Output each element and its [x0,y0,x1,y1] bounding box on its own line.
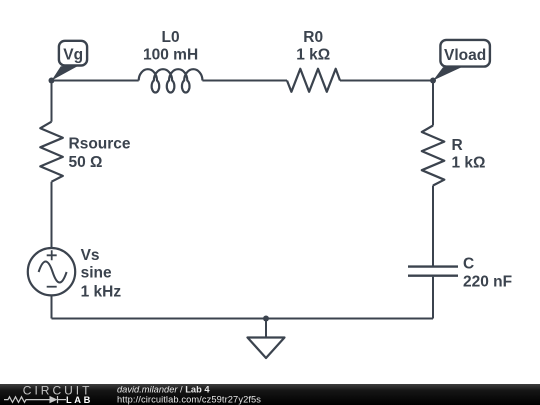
svg-text:LAB: LAB [66,395,93,405]
wire top-left: Vg node to L0 [52,80,139,82]
junction Vload node [430,78,436,84]
wire L0 to R0 [202,80,287,82]
wire R to C [432,186,434,266]
svg-text:L0: L0 [162,29,180,46]
svg-text:50 Ω: 50 Ω [69,154,103,171]
svg-text:Rsource: Rsource [69,136,131,153]
svg-text:1 kΩ: 1 kΩ [452,154,486,171]
svg-text:sine: sine [81,265,112,282]
resistor R [422,126,445,186]
svg-text:Vs: Vs [81,247,100,264]
svg-text:1 kHz: 1 kHz [81,283,122,300]
svg-text:http://circuitlab.com/cz59tr27: http://circuitlab.com/cz59tr27y2f5s [117,394,261,404]
wire Rsource to Vs [51,182,53,248]
svg-text:220 nF: 220 nF [463,274,512,291]
capacitor C [408,267,458,276]
footer logo diode [50,396,58,403]
svg-text:R0: R0 [303,29,323,46]
node Vg flag box [59,41,87,66]
svg-text:david.milander / Lab 4: david.milander / Lab 4 [117,384,210,394]
resistor Rsource [40,122,63,182]
node Vload flag pointer [433,67,462,80]
wire ground stub [265,319,267,338]
svg-text:C: C [463,256,474,273]
svg-text:R: R [452,137,463,154]
wire Vs to bottom rail [51,296,53,319]
svg-text:Vg: Vg [63,47,83,64]
wire R0 to Vload node [340,80,433,82]
inductor L0 [139,69,203,92]
wire bottom rail [52,318,434,320]
svg-text:Vload: Vload [444,47,486,64]
node Vload flag box [440,40,490,67]
resistor R0 [287,69,340,92]
svg-text:100 mH: 100 mH [143,46,198,63]
footer bar [0,384,540,405]
voltage source Vs [28,248,75,295]
footer logo squiggle wire [4,396,66,403]
junction Vg node [49,78,55,84]
wire right vertical: Vload node to R [432,81,434,126]
wire left vertical: Vg node to Rsource [51,81,53,122]
ground [248,338,285,359]
node Vg flag pointer [52,66,78,80]
junction ground node [263,316,269,322]
wire C to bottom rail [432,277,434,319]
svg-text:1 kΩ: 1 kΩ [296,46,330,63]
